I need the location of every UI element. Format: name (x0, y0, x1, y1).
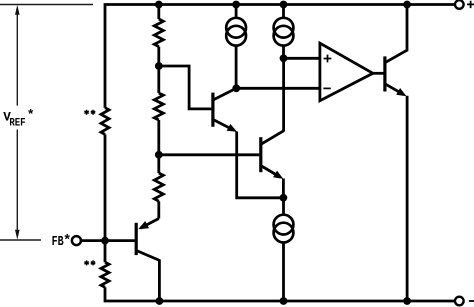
node FB junction dot (101, 237, 109, 245)
wire Q4 emitter down (406, 96, 409, 301)
wire minus input (236, 87, 318, 90)
VREF dimension arrow line (16, 11, 18, 234)
wire plus input (284, 57, 319, 60)
wire Q2 collector up to +input node (282, 58, 285, 131)
wire node B to Q2 base (159, 153, 259, 156)
svg-text:*: * (27, 108, 35, 123)
op-amp U1 (320, 43, 373, 100)
junction dot top rail CS2 (280, 1, 288, 9)
resistor R1 (154, 19, 163, 47)
current source I1 (226, 5, 246, 89)
VREF dimension extension line top (0, 4, 93, 6)
svg-text:REF: REF (9, 117, 25, 129)
wire op-amp output to Q4 base (373, 72, 384, 75)
terminal V+ (455, 0, 464, 9)
wire Q1 emitter down and right (237, 132, 284, 198)
wire node A to Q1 base (159, 66, 212, 109)
transistor Q1 (213, 88, 237, 132)
svg-text:*: * (63, 233, 71, 249)
resistor R4 ** upper left (101, 108, 109, 135)
junction dot bottom rail I3 (280, 297, 288, 305)
wire Q2 emitter to tail node (282, 179, 285, 198)
junction dot bottom rail Q3 (156, 297, 164, 305)
node minus-input junction dot (232, 84, 240, 92)
bottom rail wire (105, 287, 455, 301)
terminal FB (72, 236, 81, 245)
current source I2 (274, 5, 294, 59)
wire resistor-divider branch (157, 5, 160, 219)
transistor Q2 (261, 131, 284, 179)
node B junction dot R2-R3 (155, 151, 163, 159)
junction dot top rail Q4 (403, 1, 411, 9)
node A junction dot R1-R2 (155, 62, 163, 70)
terminal V- (455, 297, 464, 306)
resistor R5 ** lower left (101, 262, 109, 287)
label ** for R5 (84, 260, 95, 265)
resistor R3 (154, 173, 163, 201)
label ** for R4 (84, 110, 95, 115)
node tail junction dot (280, 194, 288, 202)
junction dot top rail / divider (155, 1, 163, 9)
wire left branch (104, 134, 107, 262)
label VREF* (3, 108, 34, 130)
VREF dimension arrowhead up (15, 5, 20, 15)
current source I3 tail (274, 198, 294, 301)
label + at V+ terminal (467, 1, 474, 8)
transistor Q4 (385, 5, 407, 97)
label FB* (52, 233, 72, 250)
transistor Q3 (136, 219, 159, 302)
junction dot top rail CS1 (232, 1, 240, 9)
resistor R2 (154, 93, 163, 120)
label - at V- terminal (469, 300, 474, 302)
node plus-input junction dot (280, 54, 288, 62)
VREF dimension arrowhead down (15, 230, 20, 240)
top rail wire (105, 5, 455, 108)
VREF dimension extension line bottom (0, 239, 41, 241)
wire FB to Q3 base (81, 239, 135, 242)
junction dot bottom rail Q4 (403, 297, 411, 305)
